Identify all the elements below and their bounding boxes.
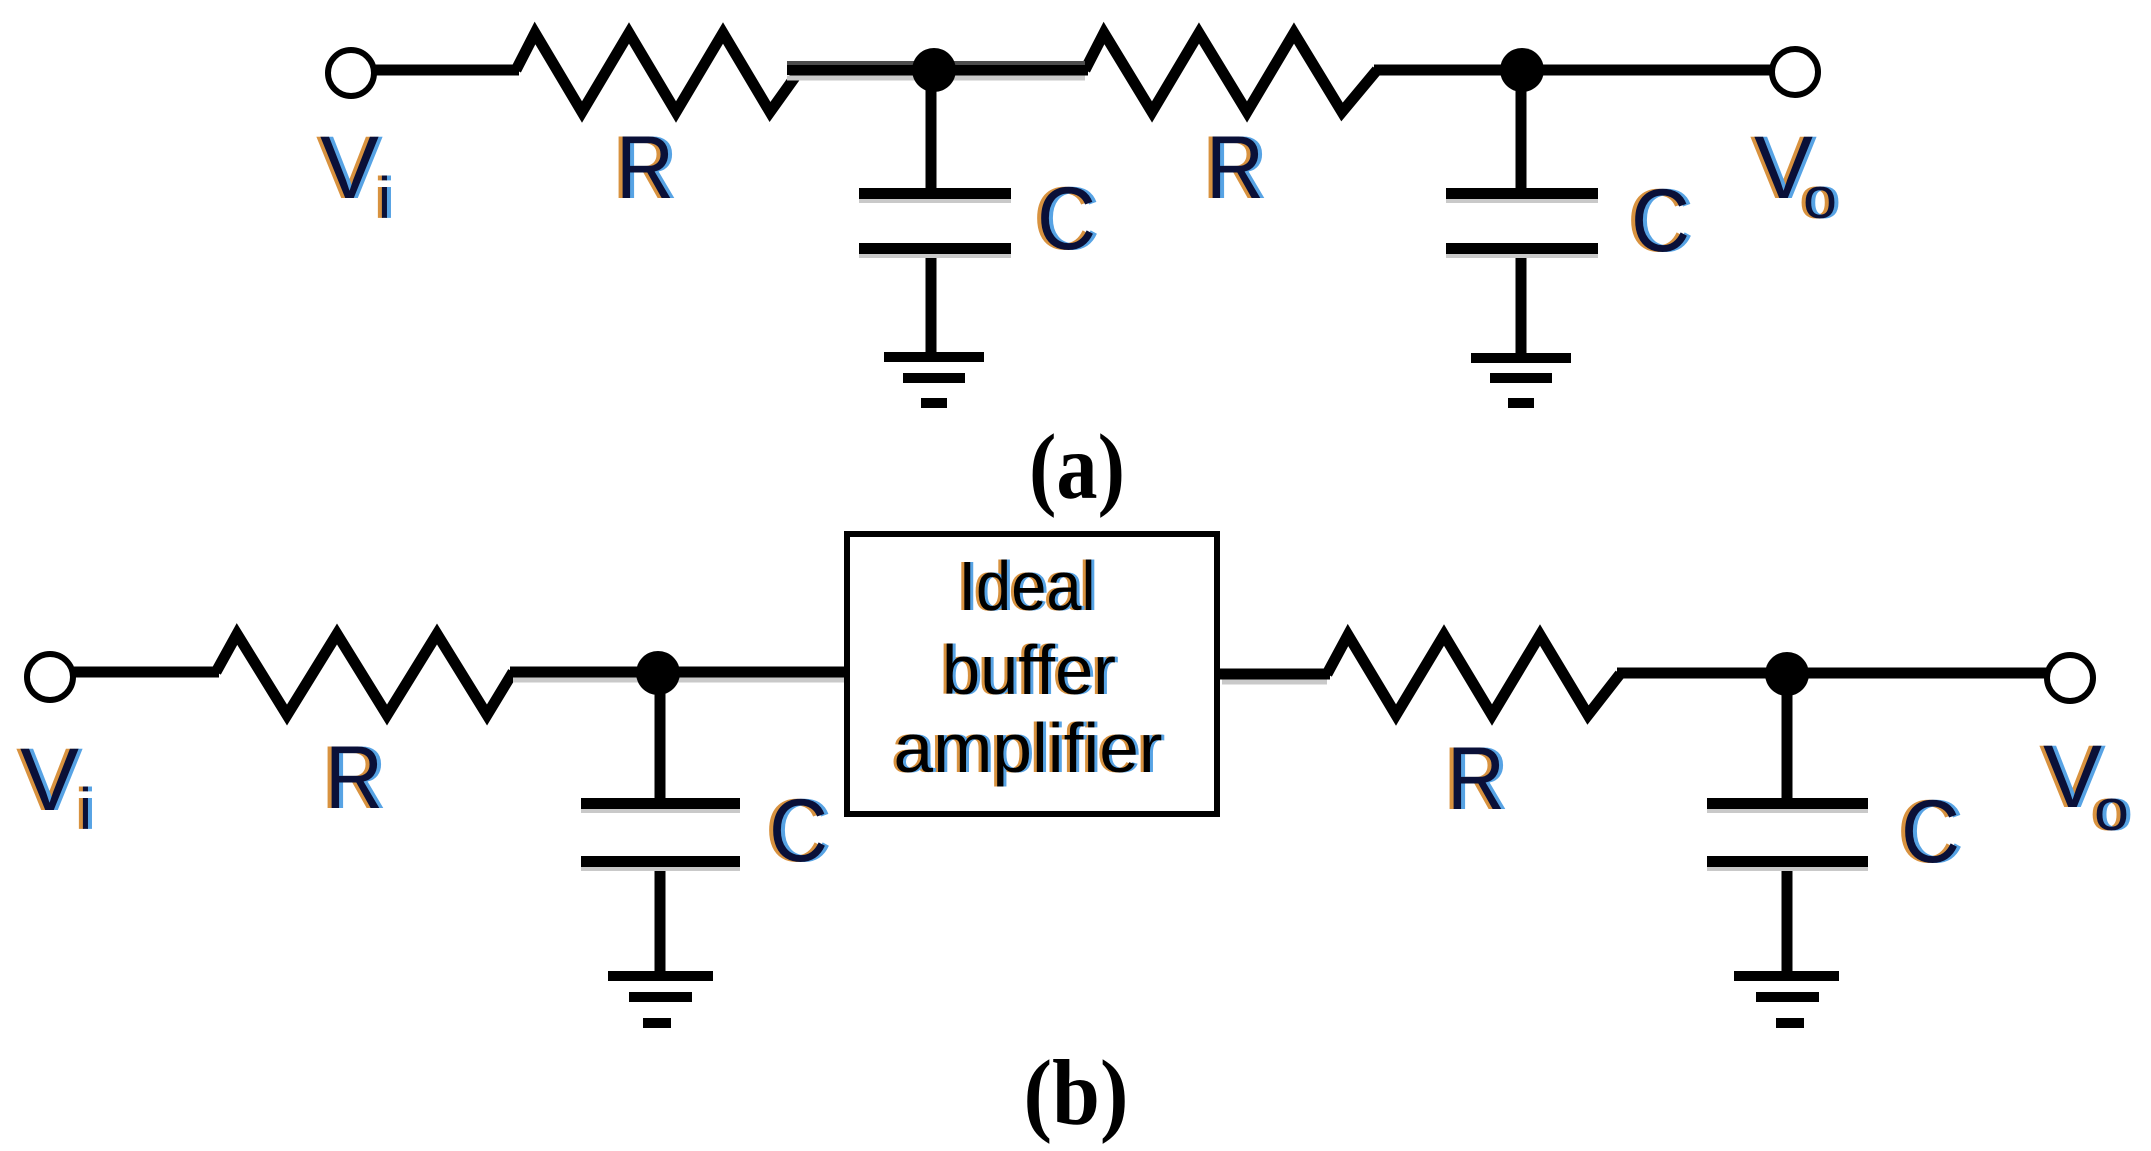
svg-text:(a): (a) bbox=[1029, 416, 1125, 519]
svg-text:C: C bbox=[1037, 168, 1096, 268]
svg-text:i: i bbox=[378, 166, 391, 231]
svg-text:C: C bbox=[1901, 781, 1960, 881]
svg-text:V: V bbox=[320, 117, 379, 217]
svg-text:R: R bbox=[616, 117, 674, 217]
svg-text:buffer: buffer bbox=[942, 631, 1116, 709]
svg-text:o: o bbox=[2094, 778, 2129, 843]
svg-text:C: C bbox=[1631, 170, 1690, 270]
svg-text:R: R bbox=[1206, 117, 1264, 217]
svg-text:(b): (b) bbox=[1024, 1042, 1129, 1145]
svg-text:i: i bbox=[79, 777, 92, 842]
svg-text:Ideal: Ideal bbox=[959, 547, 1096, 625]
svg-text:C: C bbox=[769, 780, 828, 880]
svg-text:R: R bbox=[1447, 728, 1505, 828]
svg-text:o: o bbox=[1803, 166, 1837, 231]
svg-text:R: R bbox=[325, 727, 383, 827]
svg-text:V: V bbox=[20, 729, 79, 829]
svg-text:amplifier: amplifier bbox=[894, 709, 1163, 787]
